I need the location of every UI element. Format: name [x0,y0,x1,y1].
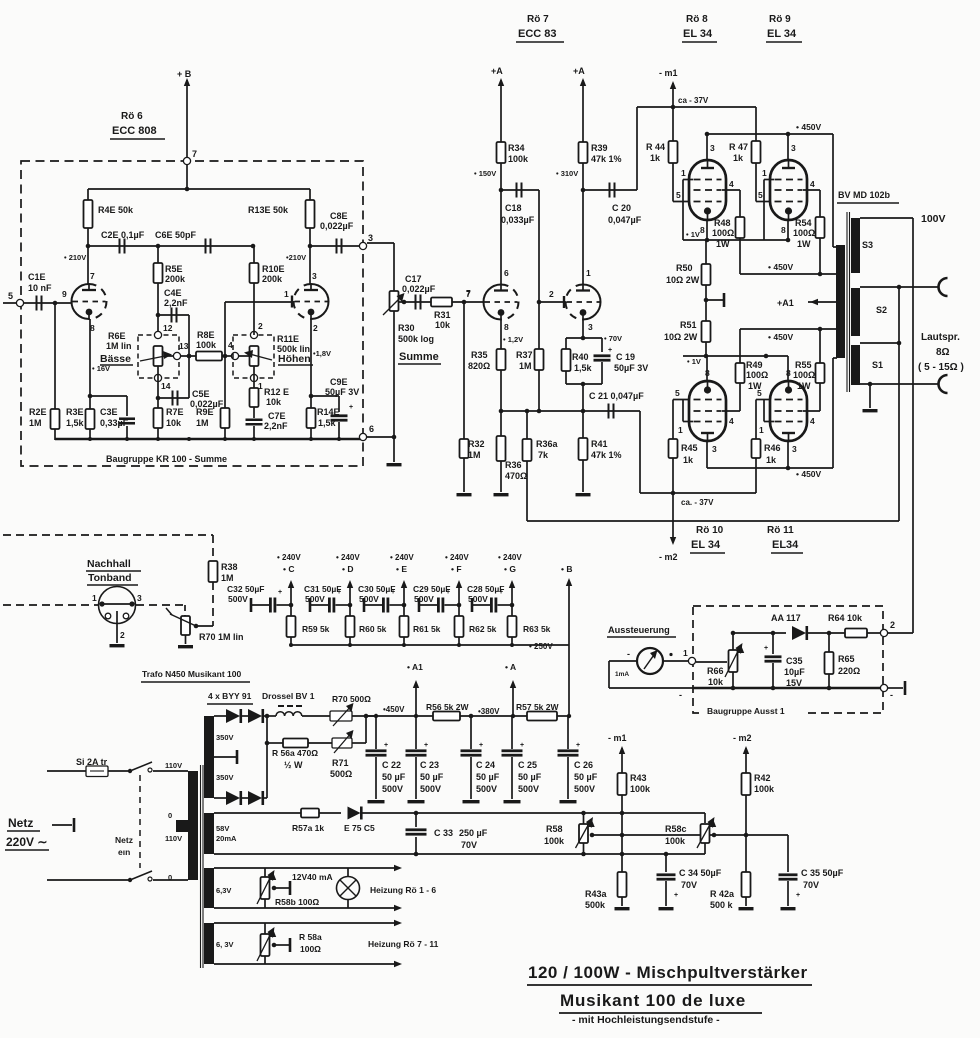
svg-text:•450V: •450V [383,705,405,714]
svg-text:100k: 100k [196,340,217,350]
svg-text:C32 50µF: C32 50µF [227,584,265,594]
svg-text:5: 5 [675,388,680,398]
svg-text:R65: R65 [838,654,855,664]
svg-text:R35: R35 [471,350,488,360]
svg-text:+: + [278,589,282,596]
svg-text:R45: R45 [681,443,698,453]
svg-text:R51: R51 [680,320,697,330]
svg-text:R 42a: R 42a [710,889,735,899]
svg-text:100Ω: 100Ω [793,370,815,380]
svg-text:C 19: C 19 [616,352,635,362]
svg-text:• 450V: • 450V [796,122,822,132]
svg-text:• C: • C [283,564,294,574]
svg-text:10k: 10k [435,320,451,330]
svg-text:R58c: R58c [665,824,687,834]
svg-text:• E: • E [396,564,407,574]
svg-text:- m2: - m2 [733,733,752,743]
svg-text:220V ∼: 220V ∼ [6,835,47,849]
svg-text:50µF 3V: 50µF 3V [325,387,359,397]
svg-text:+: + [796,892,800,899]
svg-text:50 µF: 50 µF [420,772,444,782]
svg-text:8Ω: 8Ω [936,347,950,358]
svg-text:C 20: C 20 [612,203,631,213]
svg-text:R42: R42 [754,773,771,783]
svg-text:500V: 500V [468,594,488,604]
svg-text:+ B: + B [177,69,192,79]
svg-text:+A1: +A1 [777,298,794,308]
svg-text:500 k: 500 k [710,900,734,910]
svg-text:R64 10k: R64 10k [828,613,863,623]
svg-text:6, 3V: 6, 3V [216,940,234,949]
svg-text:1W: 1W [748,381,762,391]
svg-text:C 24: C 24 [476,760,495,770]
svg-text:200k: 200k [262,274,283,284]
svg-text:50µF 3V: 50µF 3V [614,363,648,373]
svg-text:ECC 808: ECC 808 [112,125,157,137]
svg-text:R38: R38 [221,562,238,572]
svg-text:100Ω: 100Ω [793,228,815,238]
svg-text:C 34 50µF: C 34 50µF [679,868,722,878]
svg-text:C18: C18 [505,203,522,213]
svg-text:R5E: R5E [165,264,183,274]
svg-text:1k: 1k [683,455,694,465]
svg-text:+: + [424,742,428,749]
svg-text:C28 50µF: C28 50µF [467,584,505,594]
svg-text:BV MD 102b: BV MD 102b [838,190,891,200]
svg-text:ca. - 37V: ca. - 37V [681,498,714,507]
svg-text:•1,8V: •1,8V [313,349,331,358]
svg-text:1mA: 1mA [615,671,629,678]
svg-text:470Ω: 470Ω [505,471,527,481]
svg-text:R57 5k 2W: R57 5k 2W [516,702,559,712]
svg-text:- m1: - m1 [608,733,627,743]
svg-text:+: + [479,742,483,749]
svg-text:10Ω 2W: 10Ω 2W [664,332,698,342]
svg-text:C1E: C1E [28,272,46,282]
svg-text:- m1: - m1 [659,68,678,78]
svg-text:R46: R46 [764,443,781,453]
svg-text:200k: 200k [165,274,186,284]
svg-text:Netz: Netz [8,816,33,830]
svg-text:• 1V: • 1V [686,230,700,239]
svg-text:100k: 100k [754,784,775,794]
svg-text:R54: R54 [795,218,812,228]
svg-text:8: 8 [504,322,509,332]
svg-text:-: - [679,690,682,700]
svg-text:• 250V: • 250V [529,642,553,651]
svg-text:• 1V: • 1V [687,357,701,366]
svg-text:• 240V: • 240V [390,553,414,562]
svg-text:8: 8 [781,225,786,235]
svg-text:4: 4 [729,179,734,189]
svg-text:R30: R30 [398,323,415,333]
svg-text:C 25: C 25 [518,760,537,770]
svg-text:0,047µF: 0,047µF [608,215,642,225]
svg-text:Heizung Rö 1 - 6: Heizung Rö 1 - 6 [370,885,436,895]
svg-text:5: 5 [8,291,13,301]
svg-text:1: 1 [678,425,683,435]
svg-text:8: 8 [786,368,791,378]
svg-text:C31 50µF: C31 50µF [304,584,342,594]
svg-text:3: 3 [710,143,715,153]
svg-text:C 26: C 26 [574,760,593,770]
svg-text:0: 0 [168,811,172,820]
svg-text:•380V: •380V [478,707,500,716]
svg-text:1: 1 [762,168,767,178]
svg-text:Bässe: Bässe [100,353,131,365]
svg-text:3: 3 [712,444,717,454]
svg-text:C7E: C7E [268,411,286,421]
svg-text:1k: 1k [733,153,744,163]
svg-text:+: + [349,404,353,411]
svg-text:• A: • A [505,662,516,672]
svg-text:2: 2 [890,620,895,630]
svg-text:110V: 110V [165,761,182,770]
svg-text:R8E: R8E [197,330,215,340]
svg-text:R60 5k: R60 5k [359,624,387,634]
svg-text:1M: 1M [29,418,42,428]
svg-text:7: 7 [192,149,197,159]
svg-text:0,022µF: 0,022µF [402,284,436,294]
svg-text:1M: 1M [519,361,532,371]
svg-text:14: 14 [161,381,171,391]
svg-text:R70 1M lin: R70 1M lin [199,632,244,642]
svg-text:3: 3 [792,444,797,454]
svg-text:0: 0 [168,873,172,882]
svg-text:12V40 mA: 12V40 mA [292,872,333,882]
svg-text:2: 2 [258,321,263,331]
svg-text:Summe: Summe [399,351,439,363]
svg-text:• 70V: • 70V [604,334,622,343]
svg-text:C9E: C9E [330,377,348,387]
svg-text:1M: 1M [221,573,234,583]
svg-text:C 22: C 22 [382,760,401,770]
svg-text:0,033µF: 0,033µF [501,215,535,225]
svg-text:R59 5k: R59 5k [302,624,330,634]
svg-text:R 56a 470Ω: R 56a 470Ω [272,748,318,758]
svg-text:500V: 500V [382,784,403,794]
svg-text:C 23: C 23 [420,760,439,770]
svg-text:Lautspr.: Lautspr. [921,332,960,343]
svg-text:10k: 10k [166,418,182,428]
svg-text:R10E: R10E [262,264,285,274]
svg-text:100k: 100k [544,836,565,846]
svg-text:R 58a: R 58a [299,932,322,942]
svg-text:C 33: C 33 [434,828,453,838]
svg-text:1,5k: 1,5k [574,363,593,373]
svg-text:4: 4 [810,416,815,426]
svg-text:100k: 100k [665,836,686,846]
svg-text:1: 1 [683,648,688,658]
svg-text:C17: C17 [405,274,422,284]
svg-text:R13E 50k: R13E 50k [248,205,289,215]
svg-text:• B: • B [561,564,572,574]
svg-text:8: 8 [700,225,705,235]
svg-text:12: 12 [163,323,173,333]
svg-text:1M: 1M [196,418,209,428]
svg-text:+: + [674,892,678,899]
svg-text:S1: S1 [872,360,883,370]
svg-text:500V: 500V [414,594,434,604]
svg-text:EL 34: EL 34 [767,28,797,40]
svg-text:• 240V: • 240V [445,553,469,562]
svg-text:C5E: C5E [192,389,210,399]
svg-text:• 450V: • 450V [796,469,822,479]
svg-text:350V: 350V [216,773,234,782]
svg-text:3: 3 [791,143,796,153]
svg-text:R36: R36 [505,460,522,470]
svg-text:• 240V: • 240V [498,553,522,562]
svg-text:Rö 9: Rö 9 [769,14,791,25]
svg-text:110V: 110V [165,834,182,843]
svg-text:100Ω: 100Ω [712,228,734,238]
svg-text:500V: 500V [228,594,248,604]
svg-text:R7E: R7E [166,407,184,417]
svg-text:•210V: •210V [286,253,306,262]
svg-text:C 21 0,047µF: C 21 0,047µF [589,391,644,401]
svg-text:R3E: R3E [66,407,84,417]
svg-text:C30 50µF: C30 50µF [358,584,396,594]
svg-text:R39: R39 [591,143,608,153]
svg-text:R58b 100Ω: R58b 100Ω [275,897,319,907]
svg-text:3: 3 [137,593,142,603]
svg-text:4: 4 [810,179,815,189]
svg-text:500V: 500V [305,594,325,604]
svg-text:R63 5k: R63 5k [523,624,551,634]
svg-text:50 µF: 50 µF [476,772,500,782]
svg-text:R43: R43 [630,773,647,783]
svg-text:1k: 1k [766,455,777,465]
svg-text:R55: R55 [795,360,812,370]
svg-text:• A1: • A1 [407,662,423,672]
svg-text:500Ω: 500Ω [330,769,352,779]
svg-text:C4E: C4E [164,288,182,298]
svg-text:C35: C35 [786,656,803,666]
svg-text:eın: eın [118,847,130,857]
svg-text:R66: R66 [707,666,724,676]
svg-text:R61 5k: R61 5k [413,624,441,634]
svg-text:- mit Hochleistungsendstufe -: - mit Hochleistungsendstufe - [572,1014,720,1026]
svg-text:R41: R41 [591,439,608,449]
svg-text:1W: 1W [797,381,811,391]
svg-text:R31: R31 [434,310,451,320]
svg-text:R57a 1k: R57a 1k [292,823,324,833]
svg-text:500V: 500V [574,784,595,794]
svg-text:Drossel BV 1: Drossel BV 1 [262,691,315,701]
svg-text:Baugruppe KR 100 - Summe: Baugruppe KR 100 - Summe [106,454,227,464]
svg-text:R 47: R 47 [729,142,748,152]
svg-text:500V: 500V [420,784,441,794]
svg-text:1: 1 [284,289,289,299]
svg-text:10 nF: 10 nF [28,283,52,293]
svg-text:R36a: R36a [536,439,559,449]
svg-text:Rö 7: Rö 7 [527,14,549,25]
svg-text:0,33µF: 0,33µF [100,418,129,428]
svg-text:+: + [520,742,524,749]
svg-text:Baugruppe Ausst 1: Baugruppe Ausst 1 [707,706,785,716]
svg-text:Tonband: Tonband [88,572,132,584]
svg-text:10µF: 10µF [784,667,805,677]
svg-text:R40: R40 [572,352,589,362]
svg-text:+: + [764,645,768,652]
svg-text:- m2: - m2 [659,552,678,562]
svg-text:EL 34: EL 34 [683,28,713,40]
svg-text:R 44: R 44 [646,142,665,152]
svg-text:7: 7 [90,271,95,281]
svg-text:C3E: C3E [100,407,118,417]
svg-text:Heizung Rö 7 - 11: Heizung Rö 7 - 11 [368,939,439,949]
svg-text:47k 1%: 47k 1% [591,154,622,164]
svg-text:R37: R37 [516,350,533,360]
svg-text:• 450V: • 450V [768,332,794,342]
svg-text:Nachhall: Nachhall [87,558,131,570]
svg-text:• D: • D [342,564,353,574]
svg-text:10k: 10k [266,397,282,407]
svg-text:R71: R71 [332,758,349,768]
svg-text:3: 3 [368,233,373,243]
svg-text:-: - [627,649,630,659]
svg-text:R56 5k 2W: R56 5k 2W [426,702,469,712]
svg-text:0,022µF: 0,022µF [320,221,354,231]
svg-text:50 µF: 50 µF [382,772,406,782]
svg-text:R4E 50k: R4E 50k [98,205,134,215]
svg-text:7k: 7k [538,450,549,460]
svg-text:1: 1 [92,593,97,603]
svg-text:S3: S3 [862,240,873,250]
svg-text:5: 5 [758,190,763,200]
svg-text:Rö 11: Rö 11 [767,525,794,536]
svg-text:• 450V: • 450V [768,262,794,272]
svg-text:ca - 37V: ca - 37V [678,96,709,105]
svg-text:+: + [576,742,580,749]
svg-text:100V: 100V [921,213,946,225]
svg-text:+: + [608,347,612,354]
svg-text:820Ω: 820Ω [468,361,490,371]
svg-text:500V: 500V [476,784,497,794]
svg-text:Rö 6: Rö 6 [121,111,143,122]
svg-text:100k: 100k [508,154,529,164]
svg-text:70V: 70V [461,840,477,850]
svg-text:• 310V: • 310V [556,169,578,178]
svg-text:S2: S2 [876,305,887,315]
svg-text:1: 1 [759,425,764,435]
svg-text:500k log: 500k log [398,334,434,344]
svg-text:13: 13 [179,341,189,351]
svg-text:120 / 100W - Mischpultverstärk: 120 / 100W - Mischpultverstärker [528,963,808,982]
svg-text:R48: R48 [714,218,731,228]
svg-text:6,3V: 6,3V [216,886,231,895]
svg-text:• G: • G [504,564,516,574]
svg-text:• 240V: • 240V [277,553,301,562]
svg-text:+: + [384,742,388,749]
svg-text:R12 E: R12 E [264,387,289,397]
svg-text:R32: R32 [468,439,485,449]
svg-text:500V: 500V [359,594,379,604]
svg-text:R6E: R6E [108,331,126,341]
svg-text:1,5k: 1,5k [66,418,85,428]
svg-text:R70 500Ω: R70 500Ω [332,694,371,704]
svg-text:10k: 10k [708,677,724,687]
svg-text:Aussteuerung: Aussteuerung [608,625,670,635]
svg-text:2: 2 [120,630,125,640]
svg-text:R11E: R11E [277,334,299,344]
svg-text:ECC 83: ECC 83 [518,28,557,40]
svg-text:10Ω 2W: 10Ω 2W [666,275,700,285]
svg-text:Rö 10: Rö 10 [696,525,724,536]
svg-text:C8E: C8E [330,211,348,221]
svg-text:8: 8 [705,368,710,378]
svg-text:50 µF: 50 µF [518,772,542,782]
svg-text:C29 50µF: C29 50µF [413,584,451,594]
svg-text:1: 1 [681,168,686,178]
svg-text:9: 9 [62,289,67,299]
svg-text:Musikant 100 de luxe: Musikant 100 de luxe [560,991,746,1010]
svg-text:350V: 350V [216,733,234,742]
svg-text:EL34: EL34 [772,539,799,551]
svg-text:2,2nF: 2,2nF [264,421,288,431]
svg-text:100k: 100k [630,784,651,794]
svg-text:EL 34: EL 34 [691,539,721,551]
svg-text:2: 2 [313,323,318,333]
svg-text:4 x BYY 91: 4 x BYY 91 [208,691,252,701]
svg-text:1k: 1k [650,153,661,163]
svg-text:Rö 8: Rö 8 [686,14,708,25]
svg-text:R43a: R43a [585,889,608,899]
svg-text:250 µF: 250 µF [459,828,488,838]
svg-text:3: 3 [312,271,317,281]
svg-text:-: - [890,690,893,700]
svg-text:R50: R50 [676,263,693,273]
svg-text:R62 5k: R62 5k [469,624,497,634]
svg-text:2,2nF: 2,2nF [164,298,188,308]
svg-text:15V: 15V [786,678,802,688]
svg-text:47k 1%: 47k 1% [591,450,622,460]
svg-text:R49: R49 [746,360,763,370]
svg-text:20mA: 20mA [216,834,237,843]
svg-text:½ W: ½ W [284,760,303,770]
svg-text:500k: 500k [585,900,606,910]
svg-text:• 210V: • 210V [64,253,86,262]
svg-text:Höhen: Höhen [278,353,311,365]
svg-text:500V: 500V [518,784,539,794]
svg-text:Trafo N450 Musikant 100: Trafo N450 Musikant 100 [142,669,241,679]
svg-text:R58: R58 [546,824,563,834]
svg-text:R34: R34 [508,143,525,153]
svg-text:1M: 1M [468,450,481,460]
svg-text:4: 4 [729,416,734,426]
svg-text:• 240V: • 240V [336,553,360,562]
svg-text:6: 6 [504,268,509,278]
svg-text:• 150V: • 150V [474,169,496,178]
svg-text:3: 3 [588,322,593,332]
svg-text:1W: 1W [797,239,811,249]
svg-text:Netz: Netz [115,835,133,845]
svg-text:R9E: R9E [196,407,214,417]
svg-text:70V: 70V [681,880,697,890]
svg-text:100Ω: 100Ω [746,370,768,380]
svg-text:2: 2 [549,289,554,299]
svg-text:• F: • F [451,564,462,574]
svg-text:+A: +A [573,66,585,76]
svg-text:6: 6 [369,424,374,434]
svg-text:+A: +A [491,66,503,76]
svg-text:E 75 C5: E 75 C5 [344,823,375,833]
svg-text:( 5 - 15Ω ): ( 5 - 15Ω ) [918,362,964,373]
svg-text:7: 7 [466,289,471,299]
svg-text:R2E: R2E [29,407,47,417]
svg-text:58V: 58V [216,824,229,833]
svg-text:100Ω: 100Ω [300,944,321,954]
